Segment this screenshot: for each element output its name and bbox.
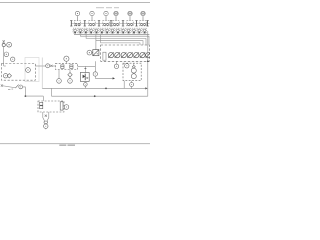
gauge G3: [11, 57, 15, 61]
instrument circle PI1: [87, 50, 93, 55]
pump skid enclosure: [123, 63, 141, 80]
wire foot: [4, 65, 6, 67]
small pump ellipse: [44, 121, 48, 124]
inline valve branch: [84, 66, 86, 72]
drop into control box: [42, 96, 44, 101]
filter unit circle: [3, 74, 7, 78]
solenoid valve box: [80, 73, 89, 82]
aux fuse units: [73, 28, 147, 33]
terminal X2: [1, 85, 3, 87]
condensate trap under fan box: [93, 61, 113, 78]
feeder chain bus: [71, 22, 150, 24]
fan F4: [127, 52, 132, 58]
control panel box (light): [25, 58, 39, 82]
aux fuse unit A5: [94, 28, 98, 33]
sensor below left: [57, 70, 62, 84]
title text block: [59, 145, 75, 146]
relay block 2: [40, 106, 43, 109]
gauge G1: [7, 42, 12, 47]
valve V1: [50, 65, 52, 67]
aux fuse unit A12: [132, 28, 136, 33]
fan F1: [108, 52, 113, 58]
hx element 2: [70, 65, 73, 68]
wire to unit box: [53, 65, 56, 67]
motor M6: [141, 11, 145, 20]
breaker bar: [110, 20, 112, 26]
skid drop wire: [123, 81, 125, 89]
staircase bus L4: [101, 35, 140, 45]
valve pilot circle: [84, 83, 88, 89]
drain diamond: [68, 70, 72, 79]
contact bar: [60, 102, 63, 110]
meter circle: [46, 64, 50, 68]
drop funnel: [43, 112, 49, 121]
bus arrowhead: [145, 87, 147, 89]
disconnect switch: [15, 85, 18, 89]
riser wire: [3, 41, 5, 66]
inline sensor S1: [2, 43, 5, 46]
sensor T3 below skid: [130, 81, 134, 89]
side sensor: [64, 105, 69, 110]
border top rule: [0, 2, 150, 4]
aux fuse unit A1: [73, 28, 77, 33]
right riser bus: [147, 31, 149, 96]
junction on upper bus: [105, 88, 107, 90]
hx element 1: [61, 65, 64, 68]
sensor on top: [64, 56, 69, 63]
breaker bar: [98, 20, 100, 26]
motor M3: [104, 11, 108, 20]
pump P1: [131, 63, 136, 78]
breaker bar: [122, 20, 124, 26]
pilot circle: [19, 85, 23, 89]
aux fuse unit A3: [84, 28, 88, 33]
junction: [25, 95, 27, 97]
breaker bar: [84, 20, 86, 26]
bus left stub: [41, 58, 43, 89]
sensor T1 below fan box: [114, 61, 118, 68]
staircase bus L3: [96, 35, 143, 45]
aux fuse unit A11: [127, 28, 131, 33]
supply terminal X1: [3, 40, 5, 42]
wire from enclosure: [35, 65, 46, 67]
bottom feed bus: [25, 95, 43, 97]
aux fuse unit A6: [100, 28, 104, 33]
starter cubicle at M5: [127, 21, 133, 26]
checked device box: [93, 50, 99, 56]
junction on lower bus: [94, 95, 96, 97]
starter cubicle at M4: [113, 21, 119, 26]
riser arrowhead: [147, 60, 149, 62]
flow arrow: [113, 77, 115, 79]
indicator circle: [44, 124, 48, 129]
breaker bar: [146, 20, 148, 26]
header text top: [96, 7, 119, 8]
aux fuse unit A10: [121, 28, 125, 33]
wire corner down: [23, 87, 26, 96]
motor M2: [90, 11, 94, 20]
staircase bus L2: [86, 35, 146, 45]
valve diamond: [7, 74, 11, 78]
aux fuse unit A7: [105, 28, 109, 33]
left plant enclosure: [2, 64, 36, 81]
aux fuse unit A4: [89, 28, 93, 33]
return bus upper: [42, 87, 146, 89]
heat exchanger enclosure: [55, 63, 77, 69]
motor M4: [114, 11, 118, 20]
panel instrument: [26, 68, 31, 73]
fan F6: [140, 52, 145, 58]
aux fuse unit A13: [137, 28, 141, 33]
return bus lower: [52, 95, 148, 97]
breaker bar: [70, 20, 72, 26]
control enclosure: [38, 101, 64, 112]
damper rect: [103, 52, 106, 60]
aux fuse unit A8: [110, 28, 114, 33]
motor M1: [75, 11, 79, 20]
motor M5: [128, 11, 132, 20]
breaker bar: [135, 20, 137, 26]
fan F5: [134, 52, 139, 58]
aux fuse unit A9: [116, 28, 120, 33]
starter cubicle at M3: [103, 21, 109, 26]
feed wire: [3, 86, 16, 88]
fan F3: [121, 52, 126, 58]
staircase bus L1: [80, 35, 149, 45]
gauge G2: [4, 52, 9, 57]
bus link: [51, 88, 53, 96]
starter cubicle at M6: [140, 21, 146, 26]
border bottom rule: [0, 143, 150, 145]
aux fuse unit A14: [143, 28, 147, 33]
tag marks: [8, 89, 13, 90]
sensor T2: [125, 64, 129, 68]
relay block 1: [40, 102, 43, 105]
fan bank enclosure: [101, 45, 150, 61]
wire to condensate trap: [78, 65, 96, 67]
fan F7: [146, 52, 151, 57]
starter cubicle at M2: [89, 21, 95, 26]
starter cell row 1: [70, 20, 149, 26]
sensor below right: [68, 79, 73, 84]
aux fuse unit A2: [78, 28, 82, 33]
fan F2: [115, 52, 120, 58]
starter cubicle at M1: [74, 21, 80, 26]
aux strip bus: [74, 34, 149, 36]
wire drop to checked box: [95, 41, 97, 50]
